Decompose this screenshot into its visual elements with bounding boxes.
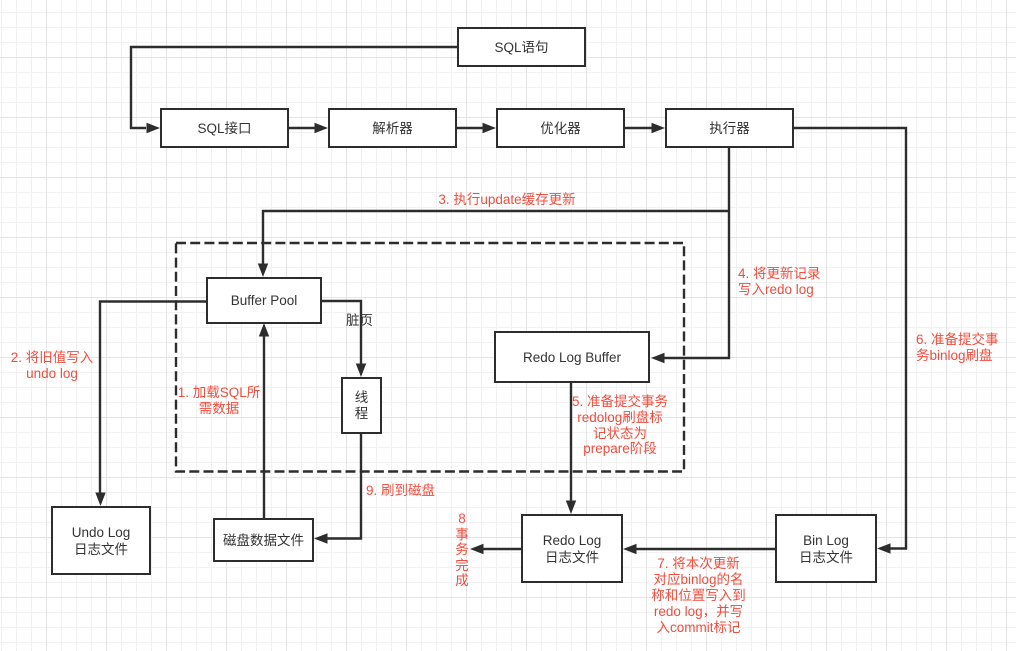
label 脏页 [346, 313, 373, 329]
label 2 将旧值写入undo log [7, 350, 97, 382]
arrow into Redo Log right edge [623, 544, 637, 554]
dashed container InnoDB [176, 243, 684, 472]
box 执行器 [665, 108, 794, 148]
label 1 加载SQL所需数据 [169, 385, 269, 417]
box Undo Log 日志文件 [51, 506, 151, 575]
arrow into 执行器 [652, 123, 666, 133]
wire 执行器 to Bin Log (step 6) [794, 128, 906, 549]
arrow into Redo Log Buffer right edge [651, 353, 665, 363]
wire step 3 update cache [263, 211, 729, 265]
wire 磁盘数据文件 to Buffer Pool (step 1) [263, 336, 265, 518]
arrow into Buffer Pool top [258, 264, 268, 278]
label 7 将本次更新对应binlog的名称和位置写入到redo log并写入commit标记 [648, 556, 749, 636]
box Redo Log Buffer [494, 331, 650, 383]
wire Bin Log to Redo Log (step 7) [635, 548, 775, 550]
box Buffer Pool [206, 277, 322, 324]
wire SQL语句 to SQL接口 [131, 47, 457, 128]
label 4 将更新记录写入redo log [738, 266, 828, 298]
box 磁盘数据文件 [213, 518, 314, 562]
wire SQL接口 to 解析器 [289, 127, 316, 129]
box Bin Log 日志文件 [775, 514, 877, 583]
label 8 事务完成 [448, 511, 476, 589]
arrow into Bin Log right edge [877, 543, 891, 553]
wire 执行器 to Redo Log Buffer (step 4) [663, 148, 729, 358]
box 线程 [341, 377, 382, 434]
arrow into SQL接口 [147, 123, 161, 133]
arrow into 解析器 [315, 123, 329, 133]
wire 优化器 to 执行器 [625, 127, 653, 129]
arrow into Redo Log file top [566, 501, 576, 515]
wire 解析器 to 优化器 [457, 127, 484, 129]
arrow toward 事务完成 [470, 544, 484, 554]
wire Buffer Pool to 线程 (脏页) [322, 301, 361, 365]
wire 线程 to 磁盘数据文件 (step 9) [326, 434, 361, 539]
wire Buffer Pool to Undo Log (step 2) [100, 302, 206, 495]
arrow into Buffer Pool bottom [259, 323, 269, 337]
label 6 准备提交事务binlog刷盘 [916, 332, 1002, 364]
arrow into 优化器 [483, 123, 497, 133]
arrow into 磁盘数据文件 right edge [314, 533, 328, 543]
arrow into 线程 top [356, 364, 366, 378]
box 解析器 [328, 108, 457, 148]
box Redo Log 日志文件 [521, 514, 623, 583]
arrow into Undo Log top [95, 493, 105, 507]
box 优化器 [496, 108, 625, 148]
wire Redo Log Buffer to Redo Log file (step 5) [570, 383, 572, 502]
box SQL语句 [457, 27, 586, 67]
wire Redo Log to 事务完成 (step 8) [482, 548, 521, 550]
label 9 刷到磁盘 [366, 483, 435, 499]
label 3 执行update缓存更新 [427, 192, 587, 208]
label 5 准备提交事务redolog刷盘标记状态为prepare阶段 [570, 394, 670, 457]
box SQL接口 [160, 108, 289, 148]
